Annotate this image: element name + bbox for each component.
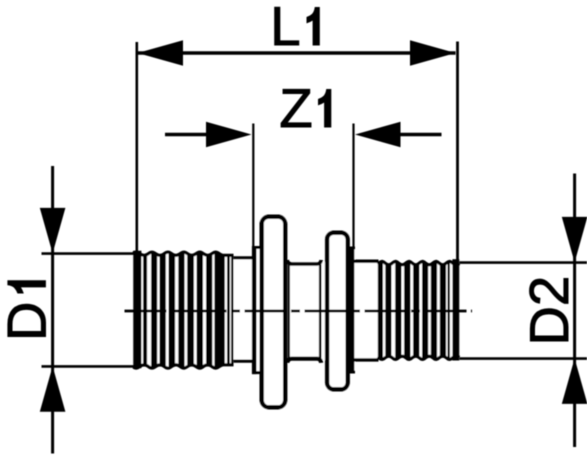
- svg-text:L: L: [270, 0, 300, 57]
- dimension D1: top extension line: [42, 252, 141, 255]
- right ribbed spigot: crest outline bottom: [378, 356, 460, 359]
- dimension D2: top arrowhead: [562, 217, 587, 263]
- middle cylinder right fillet edge: [319, 265, 322, 359]
- middle cylinder top edge with fillets: [287, 260, 321, 264]
- dimension Z1: label 1: [319, 90, 331, 128]
- dimension Z1: left dimension line: [165, 133, 207, 136]
- right neck: [352, 260, 379, 263]
- dimension L1: right arrowhead: [410, 40, 456, 66]
- dimension L1: left arrowhead: [138, 40, 184, 66]
- middle cylinder bottom edge with fillets: [287, 359, 321, 363]
- left ribbed spigot: crest outline bottom: [133, 365, 233, 368]
- dimension L1: label 1: [307, 8, 319, 46]
- dimension D1: label D1 rotated: [0, 281, 57, 341]
- svg-text:D: D: [0, 302, 57, 341]
- left flange white fill: [260, 215, 288, 410]
- dimension D2: label D2 rotated: [519, 276, 580, 346]
- fitting body white fill: [133, 252, 233, 368]
- dimension D1: bottom extension line: [42, 365, 141, 368]
- right pipe end face bar: [452, 259, 459, 360]
- dimension D2: bottom arrowhead: [562, 358, 587, 404]
- dimension D1: bottom arrowhead: [40, 366, 66, 412]
- left ribbed spigot: rib bars: [143, 248, 233, 372]
- dimension Z1: right dimension line: [399, 133, 442, 136]
- svg-text:Z: Z: [279, 78, 312, 139]
- svg-text:D2: D2: [519, 276, 580, 346]
- left flange: [262, 217, 286, 408]
- right stop ring: [350, 247, 355, 250]
- right ribbed spigot: rib bars: [378, 256, 450, 364]
- dimension D2: bottom extension line: [460, 357, 587, 360]
- dimension Z1: left arrowhead: [206, 122, 252, 148]
- L1 right extension line (pipe end face): [456, 42, 459, 263]
- centerline: [125, 310, 473, 313]
- right flange white fill: [325, 231, 350, 392]
- dimension D2: dimension line: [573, 174, 576, 448]
- middle cylinder left fillet edge: [288, 265, 290, 359]
- dimension L1: dimension line: [138, 51, 456, 54]
- dimension D1: top arrowhead: [40, 208, 66, 254]
- right ribbed spigot: crest outline top: [378, 261, 460, 264]
- left ribbed spigot: crest outline top: [133, 252, 233, 255]
- dimension Z1: left extension line: [252, 124, 254, 248]
- left neck: [234, 256, 255, 259]
- dimension Z1: right extension line: [352, 124, 354, 249]
- dimension Z1: right arrowhead: [355, 122, 401, 148]
- dimension D1: dimension line: [51, 166, 54, 454]
- dimension D2: top extension line: [460, 261, 587, 264]
- left pipe end face bar: [133, 251, 141, 369]
- L1 left extension line (pipe end face): [136, 42, 139, 252]
- left stop ring: [252, 246, 260, 249]
- right flange: [327, 233, 348, 390]
